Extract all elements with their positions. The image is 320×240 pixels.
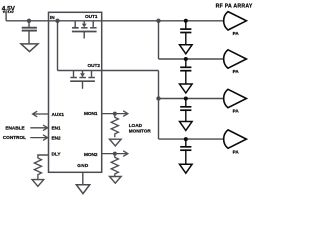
capacitor C3 rail2 (180, 57, 191, 84)
ground: GND pin (76, 185, 89, 194)
svg-text:AUX1: AUX1 (52, 112, 65, 117)
svg-text:PA: PA (233, 31, 240, 36)
svg-text:ENABLE: ENABLE (5, 126, 24, 131)
pin EN2 arrow in (30, 135, 47, 141)
resistor R-MON2 (111, 154, 118, 178)
ground: MON1 resistor (110, 139, 122, 146)
ground: MON2 resistor (110, 177, 122, 184)
svg-text:EN1: EN1 (52, 126, 62, 131)
node: MON1 resistor tap (113, 112, 117, 116)
svg-text:MON2: MON2 (84, 152, 98, 157)
svg-text:EN2: EN2 (52, 136, 62, 141)
svg-text:PA: PA (233, 149, 240, 154)
node: rail1 to rail2 junction (156, 19, 160, 23)
svg-text:PA: PA (233, 109, 240, 114)
svg-text:MONITOR: MONITOR (129, 128, 152, 133)
wire: OUT2 out of box (102, 70, 159, 72)
wire: rail2 to PA2 (159, 58, 224, 60)
wire: rail3 to PA3 (159, 98, 224, 100)
svg-text:OUT2: OUT2 (88, 63, 101, 68)
wire: GND pin lead (82, 172, 84, 184)
ground: C2 (180, 45, 193, 54)
wire: OUT1 rail to PA1 (102, 20, 224, 22)
svg-text:CONTROL: CONTROL (3, 135, 26, 140)
pin MON1 arrow out (102, 111, 128, 117)
node: MON2 resistor tap (113, 152, 117, 156)
svg-text:MON1: MON1 (84, 111, 98, 116)
ground: C4 (180, 122, 193, 131)
IC U1 box (49, 12, 102, 172)
svg-text:GND: GND (77, 163, 89, 168)
ground: DLY resistor (32, 180, 44, 187)
svg-text:DLY: DLY (52, 152, 62, 157)
op-amp PA4 (224, 130, 247, 148)
op-amp PA2 (224, 50, 247, 68)
capacitor C1 input bypass (22, 21, 37, 44)
capacitor C2 rail1 (180, 19, 191, 45)
pin AUX1 arrow out (33, 111, 49, 117)
wire: internal feed down to Q2 (57, 21, 59, 71)
wire: VIN to IN pin (6, 20, 48, 22)
pin EN1 arrow in (30, 125, 47, 131)
resistor R-MON1 (111, 114, 118, 138)
op-amp PA1 (224, 12, 247, 30)
capacitor C4 rail3 (180, 97, 191, 122)
svg-text:PA: PA (233, 69, 240, 74)
wire: OUT2 drop to rail4 (158, 71, 160, 140)
wire: DLY pin to resistor (38, 155, 49, 158)
node: rail3 tap junction (156, 96, 160, 100)
svg-text:TO 5.5V: TO 5.5V (3, 10, 14, 14)
wire: rail1 drop to rail2 (158, 21, 160, 59)
svg-text:IN: IN (50, 15, 55, 20)
pin MON2 arrow out (102, 151, 128, 157)
wire: internal Q2 to OUT2 (58, 70, 102, 72)
op-amp PA3 (224, 89, 247, 107)
wire: internal IN to OUT1 (49, 20, 102, 22)
wire: VIN riser (5, 13, 7, 21)
ground: C3 (180, 84, 193, 93)
ground: input cap (21, 44, 38, 52)
transistor Q1 internal FET (72, 21, 97, 39)
resistor R-DLY (34, 158, 41, 179)
transistor Q2 internal FET (70, 71, 95, 89)
node: Q2 feed junction (55, 19, 59, 23)
node: input cap junction (27, 19, 31, 23)
wire: rail4 to PA4 (159, 138, 224, 140)
ground: C5 (180, 164, 193, 173)
capacitor C5 rail4 (180, 137, 191, 164)
svg-text:OUT1: OUT1 (85, 14, 98, 19)
svg-text:RF PA ARRAY: RF PA ARRAY (216, 3, 253, 9)
